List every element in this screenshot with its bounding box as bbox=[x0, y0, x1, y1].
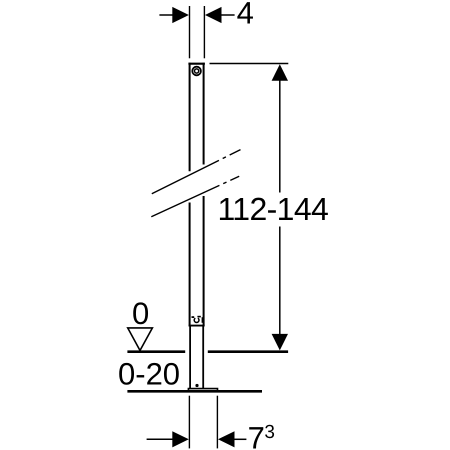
svg-text:112-144: 112-144 bbox=[218, 191, 329, 227]
svg-text:0: 0 bbox=[132, 296, 149, 331]
svg-text:4: 4 bbox=[237, 0, 254, 30]
svg-text:0-20: 0-20 bbox=[118, 356, 180, 391]
svg-text:3: 3 bbox=[264, 422, 275, 443]
svg-text:7: 7 bbox=[248, 421, 265, 450]
